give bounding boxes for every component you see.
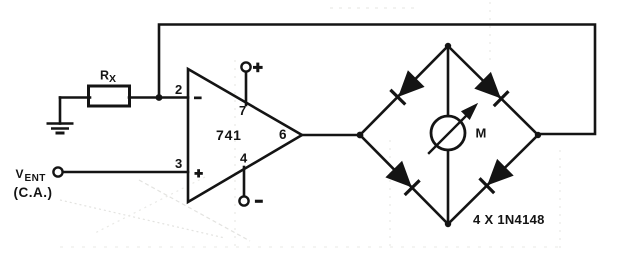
- svg-text:741: 741: [216, 127, 242, 143]
- svg-text:4 X 1N4148: 4 X 1N4148: [473, 212, 545, 227]
- svg-text:4: 4: [240, 151, 248, 166]
- svg-text:R: R: [100, 69, 109, 83]
- svg-text:X: X: [109, 73, 116, 85]
- svg-text:V: V: [16, 167, 24, 181]
- svg-text:(C.A.): (C.A.): [14, 185, 53, 200]
- svg-text:2: 2: [175, 82, 182, 97]
- svg-text:7: 7: [239, 103, 246, 118]
- svg-text:ENT: ENT: [25, 173, 46, 184]
- svg-text:3: 3: [175, 156, 182, 171]
- svg-text:M: M: [476, 126, 487, 141]
- svg-text:6: 6: [279, 127, 287, 142]
